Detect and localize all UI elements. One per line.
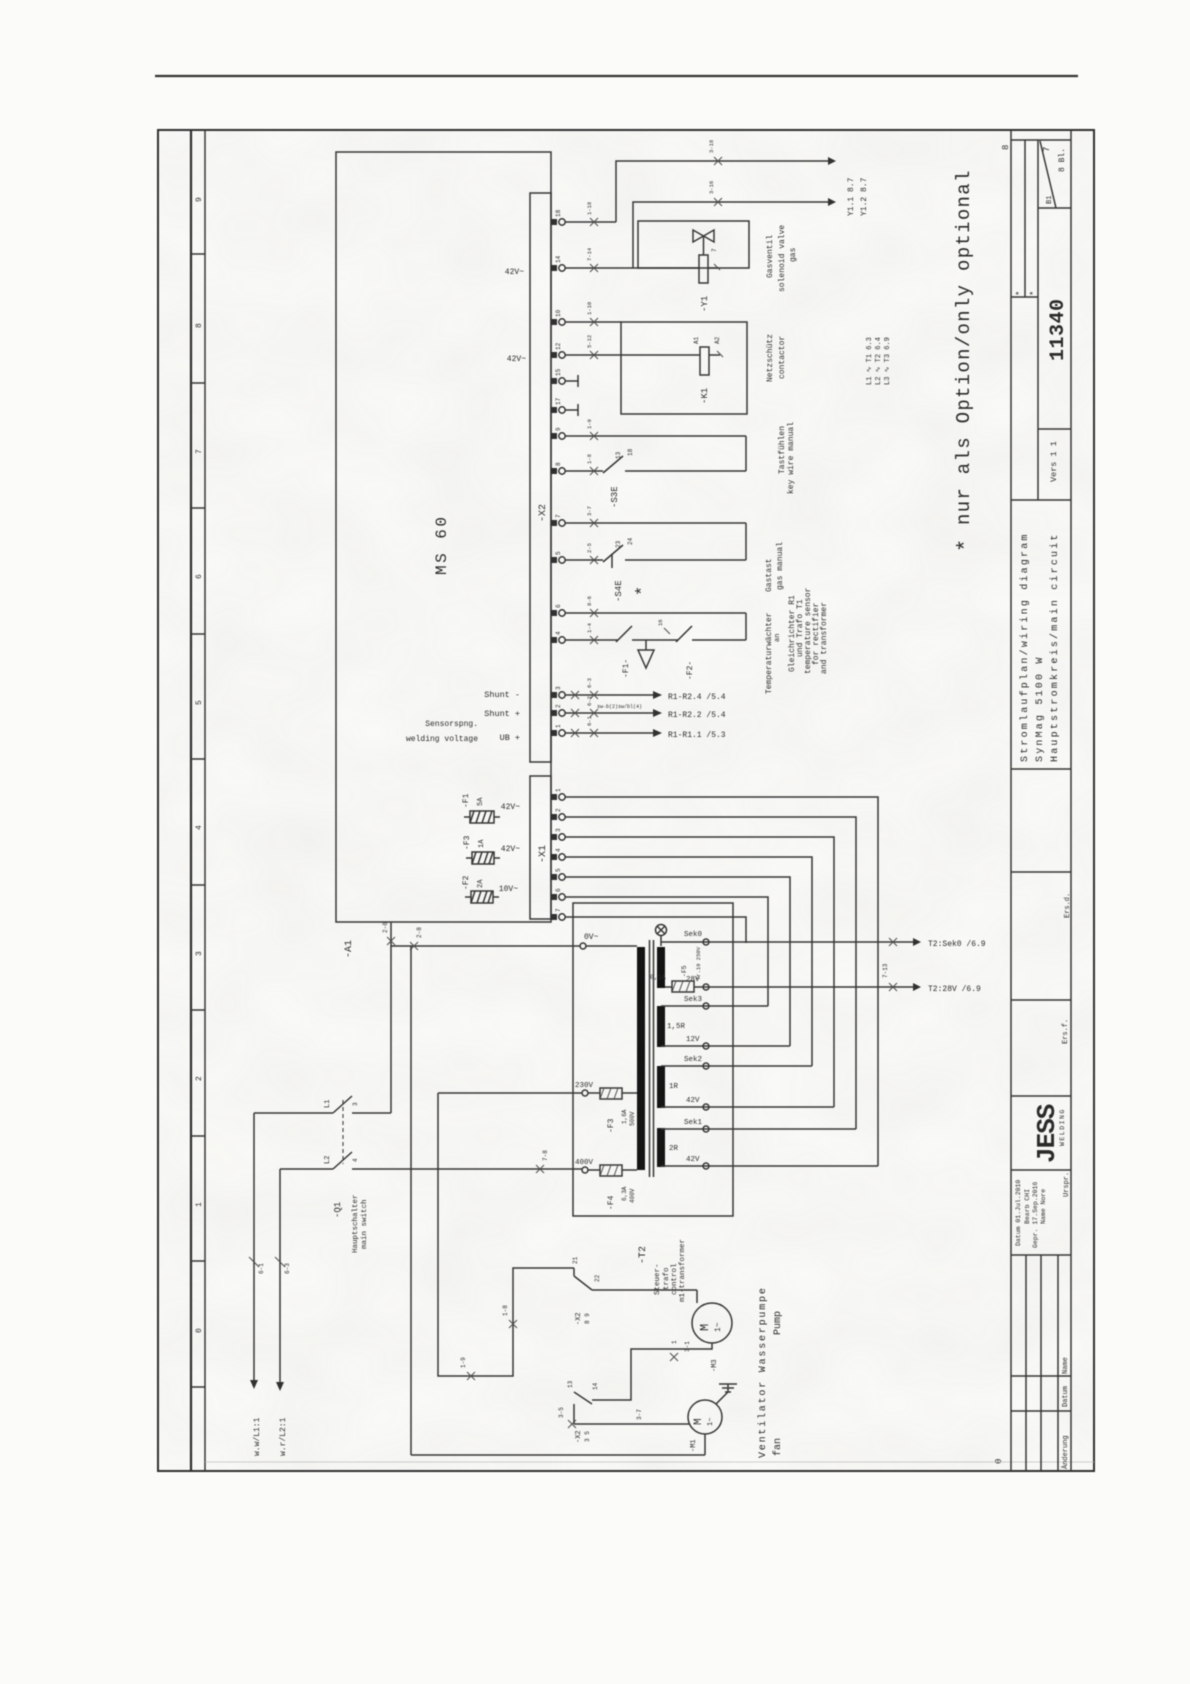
grid digits [195,145,1011,1464]
wire 0V to transformer [391,945,580,947]
header rule [155,75,1078,77]
faint inner bottom line [205,1461,1094,1463]
secondary terminals [703,939,709,945]
wire: pin18 up to Y1.1 arrow [616,161,828,268]
unused pins 15 17 [565,375,578,416]
fuse F1 [464,811,500,823]
wire from A1 to L1 [390,922,392,1113]
thermal contact F1 [616,626,632,642]
connector X1 [530,776,551,919]
wire L1 feed [254,1096,582,1169]
enclosure box: contactor K1 [621,322,747,414]
wire to fan M1 [574,1423,689,1425]
enclosure box: gas valve [638,221,749,268]
arrow Y1.1 [828,157,836,165]
bottom return wire [411,1454,705,1456]
primary tap 400V with fuse F4 [582,1167,588,1173]
X1 wires to transformer [565,797,878,1166]
core [649,940,651,1177]
pump contact X2:8/9 [573,1268,575,1276]
enclosure box T2 [573,903,733,1216]
key switch S3E [603,456,623,473]
valve symbol (bowtie) Y1 [693,230,714,255]
primary tap 230V with fuse F3a [582,1090,588,1096]
fuse F2 [465,891,499,903]
arrows to sheet 6 [913,938,921,946]
secondary tap wires [661,942,913,1166]
secondary winding bars [657,947,665,988]
wire number crosses [590,218,598,226]
solenoid coil Y1 [699,255,708,283]
wire L2 feed [280,1168,333,1170]
fuse F3 [466,852,500,864]
core earth symbol [656,925,667,936]
connector X2 [530,193,551,762]
relay coil K1 [700,347,709,375]
ground PE [716,1384,737,1404]
primary winding bar [637,947,645,1170]
incoming line arrows [254,1113,280,1382]
fuse F5 [672,981,694,992]
Q1 mechanical link [342,1100,344,1164]
grid reference strip (left) [190,130,192,1471]
outer drawing frame [158,130,1094,1471]
wire down to fan circuit [410,946,412,1455]
wire: pin14 up to Y1.2 arrow [633,202,828,268]
motor M2 water pump [692,1303,732,1343]
X1 pins [551,794,557,800]
thermal contact F2 [676,626,692,642]
arrow Y1.2 [828,198,836,206]
X2 pin wires [565,222,746,733]
shunt / sensor output arrows [653,691,662,699]
key switch S4E (option) [603,545,623,562]
main switch Q1 pole L2 [333,1152,352,1169]
main switch Q1 pole L1 [333,1096,352,1113]
primary tap 0V [580,943,586,949]
wire 230V feed [438,1093,582,1376]
M2 return to contact X2:13/14 [574,1343,712,1424]
box A1 MS60 [336,152,551,922]
diode symbol [645,640,647,650]
motor M1 fan [688,1400,722,1434]
X2 pins [551,209,565,736]
